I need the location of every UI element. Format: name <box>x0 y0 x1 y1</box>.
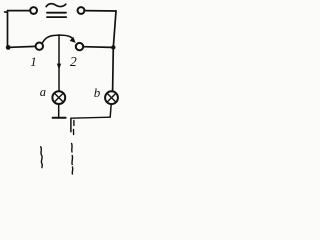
wire contact 2 to junction <box>83 46 111 49</box>
wire right vertical to lamp b <box>112 47 115 91</box>
AC source symbol upper bar <box>47 12 66 14</box>
svg-text:1: 1 <box>30 54 37 69</box>
wire lamp b bottom <box>110 104 111 117</box>
ink speck at left corner <box>5 11 7 13</box>
current direction arrow on middle wire <box>57 64 61 70</box>
wire top-right to right side <box>84 11 116 48</box>
wire bottom vertical solid <box>70 118 72 132</box>
terminal bar under lamp a <box>53 117 66 119</box>
AC source symbol lower bar <box>47 16 66 18</box>
lamp a circle <box>52 91 65 104</box>
junction dot right <box>111 45 115 49</box>
dashed continuation line <box>72 121 74 175</box>
wire top-left horizontal <box>8 10 30 12</box>
lamp a cross <box>55 93 64 102</box>
blade arc arrowhead <box>70 37 76 43</box>
wire middle vertical to lamp a <box>58 35 60 92</box>
svg-text:a: a <box>40 85 46 99</box>
lamp b circle <box>105 91 118 104</box>
switch contact 1 circle <box>36 43 43 50</box>
AC source symbol tilde <box>46 4 66 7</box>
terminal circle top-left <box>30 7 37 14</box>
wire left dot to contact 1 <box>10 45 35 48</box>
corner dot left <box>6 45 11 50</box>
switch blade arc <box>42 35 73 43</box>
wire lamp a bottom <box>58 104 60 117</box>
switch contact 2 circle <box>76 43 83 50</box>
terminal circle top-right <box>78 7 85 14</box>
wire left vertical <box>7 11 9 48</box>
break squiggle left <box>41 147 43 168</box>
svg-text:b: b <box>94 85 101 100</box>
lamp b cross <box>107 93 116 102</box>
svg-text:2: 2 <box>70 54 77 69</box>
wire bottom horizontal to left <box>71 117 110 118</box>
